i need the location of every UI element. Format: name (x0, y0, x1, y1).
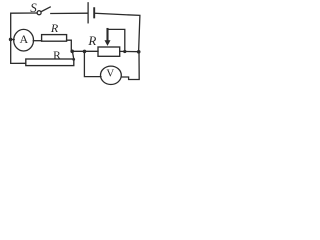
wire ammeter to R1 (33, 40, 41, 42)
node junction dot voltmeter left (83, 50, 87, 54)
wire main line left (72, 50, 98, 52)
svg-text:R: R (53, 50, 61, 62)
resistor R1 (42, 35, 67, 42)
battery short plate (93, 8, 95, 17)
voltmeter V (101, 66, 122, 84)
node junction dot wiper (123, 50, 126, 53)
node junction dot left rail (9, 38, 13, 42)
svg-text:S: S (30, 0, 37, 15)
wire left rail down to lower branch (11, 39, 26, 63)
battery long plate (87, 3, 89, 23)
node junction dot R2 corner (72, 58, 75, 61)
wire top-left from corner to switch (11, 13, 37, 39)
rheostat R' body (98, 47, 120, 56)
rheostat wiper arm wire (108, 29, 125, 51)
wire switch to battery (51, 12, 88, 14)
wire main line right (120, 50, 140, 52)
switch S (37, 11, 41, 15)
ammeter A (14, 29, 34, 51)
wire voltmeter left branch (84, 51, 101, 76)
rheostat wiper arrowhead (105, 40, 111, 46)
wire voltmeter right branch (121, 52, 139, 80)
wire R2 to node (72, 51, 73, 59)
node junction dot parallel resistors (70, 50, 74, 54)
node junction dot right rail (137, 50, 141, 54)
rheostat wiper shaft (106, 29, 108, 41)
resistor R2 (26, 59, 74, 66)
svg-text:V: V (106, 68, 114, 80)
wire battery to top-right corner (95, 13, 140, 51)
svg-text:A: A (19, 32, 28, 46)
wire node to ammeter (11, 38, 15, 40)
svg-text:R: R (50, 21, 59, 35)
wire R1 to node (67, 40, 72, 51)
svg-text:R: R (87, 33, 96, 48)
